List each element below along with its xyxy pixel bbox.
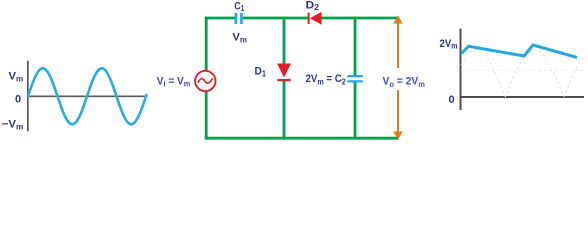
svg-text:0: 0 bbox=[15, 94, 21, 106]
svg-text:2Vm = C2: 2Vm = C2 bbox=[306, 73, 347, 86]
svg-text:0: 0 bbox=[449, 94, 455, 106]
